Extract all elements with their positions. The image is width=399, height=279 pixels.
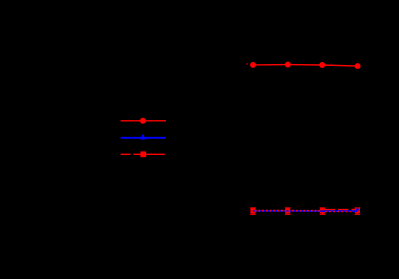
series 1 marker point 1 xyxy=(250,62,256,68)
series 2 blue triangle marker bottom point 4 (under layer) xyxy=(354,207,360,213)
series 3 square marker bottom point 3 xyxy=(320,209,325,214)
error bar at bottom point 3 xyxy=(320,208,326,214)
legend entry 2: blue triangle marker xyxy=(140,134,145,140)
series 3 square marker bottom point 1 xyxy=(250,209,255,214)
series 2 blue triangle marker bottom point 3 (under layer) xyxy=(319,207,325,213)
legend entry 1: red circle marker xyxy=(140,118,146,124)
series 3 red dotted under-run segment 3-4 xyxy=(325,211,354,213)
series 3 square marker bottom point 4 xyxy=(355,209,360,214)
error bar at bottom point 1 xyxy=(250,208,256,214)
series 1 marker point 4 xyxy=(355,63,361,69)
series 1 red solid line (top) xyxy=(253,65,358,67)
legend entry 1: red solid line sample xyxy=(121,120,166,122)
series 1 marker point 2 xyxy=(285,62,291,68)
series 3 red dotted overlay line (points 1 to 3) xyxy=(251,210,323,212)
error bar at bottom point 4 xyxy=(355,208,361,214)
series 1 clipped line stub left of first marker xyxy=(246,63,248,64)
legend entry 3: red dashed line sample, second run xyxy=(133,153,164,155)
series 3 square marker bottom point 2 xyxy=(285,209,290,214)
error bar at bottom point 2 xyxy=(285,208,291,214)
series 2 blue triangle marker bottom point 1 (under layer) xyxy=(250,207,256,213)
series 1 marker point 3 xyxy=(319,62,325,68)
legend entry 2: blue solid line sample xyxy=(121,137,166,139)
series 2 blue triangle marker bottom point 2 (under layer) xyxy=(285,207,291,213)
series 2 blue solid line (bottom, drawn over squares) xyxy=(253,210,358,212)
series 3 red long-dash segment (between points 3 and 4) xyxy=(325,209,358,211)
series 2 blue triangle tip overlay at bottom point 4 xyxy=(356,207,360,210)
legend entry 3: red dashed line sample, first dash xyxy=(121,153,131,155)
legend entry 3: red square marker xyxy=(140,151,146,157)
